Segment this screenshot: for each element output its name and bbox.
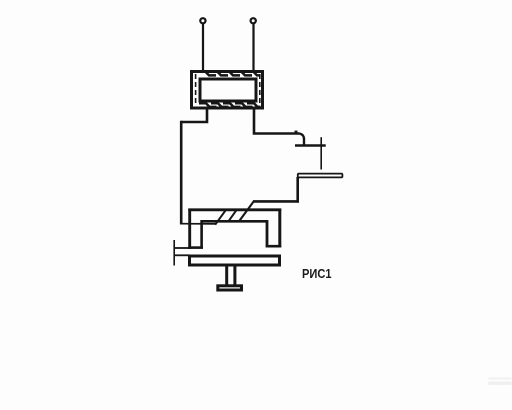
svg-text:РИС1: РИС1	[302, 266, 332, 281]
